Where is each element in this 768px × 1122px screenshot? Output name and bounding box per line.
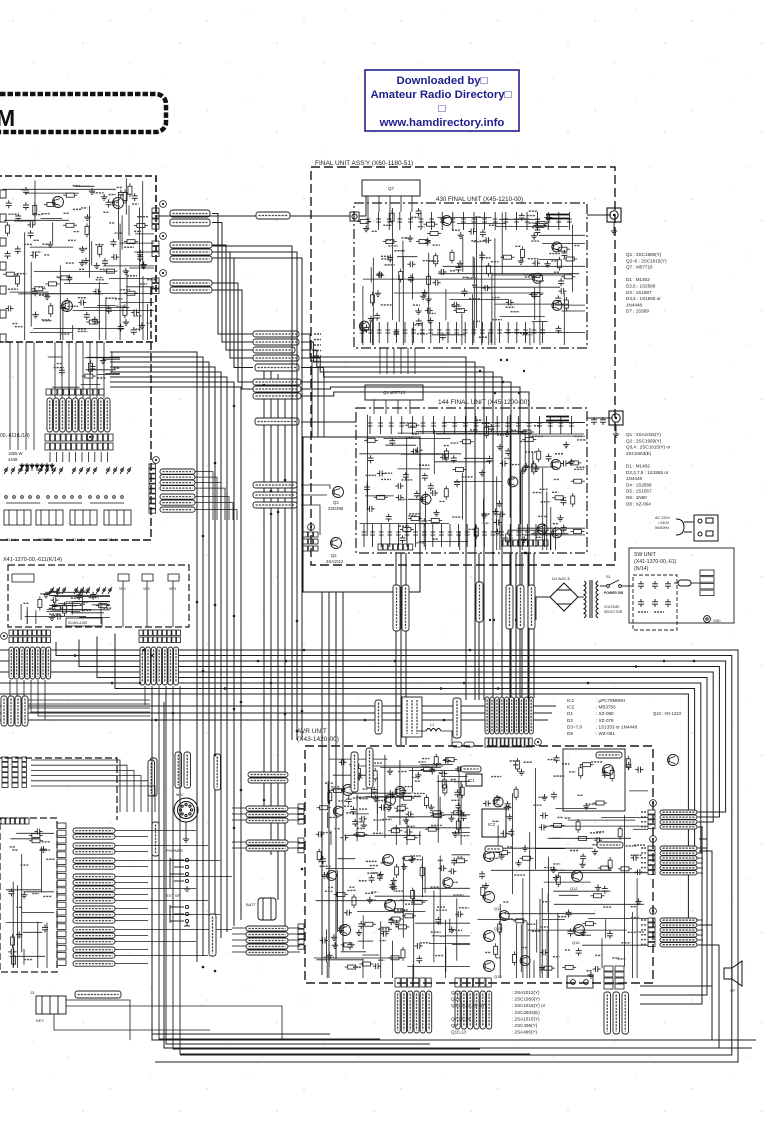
value label	[356, 821, 363, 823]
fuse F1	[452, 742, 462, 747]
wire	[363, 278, 534, 280]
ground	[376, 271, 382, 277]
svg-text:: 2SC496(Y): : 2SC496(Y)	[512, 1023, 538, 1028]
value label	[419, 761, 426, 763]
capacitor	[561, 497, 567, 505]
resistor	[506, 531, 510, 545]
signal label PLL-3B1-2L	[73, 886, 115, 891]
junction	[497, 687, 500, 690]
wire AVR edge stub	[697, 862, 703, 864]
wire	[392, 941, 394, 978]
resistor	[388, 956, 402, 960]
junction	[277, 511, 280, 514]
ground mic	[183, 836, 189, 842]
ground	[393, 920, 399, 926]
capacitor	[479, 871, 485, 879]
wire scan harness 2	[151, 686, 153, 709]
wire	[545, 825, 648, 827]
wire bridge DC out	[536, 597, 550, 620]
ground	[84, 214, 90, 220]
wire to AVR edge 2	[288, 841, 300, 843]
wire	[409, 400, 411, 414]
value label	[457, 807, 463, 809]
wire	[13, 948, 15, 966]
ground	[415, 308, 421, 314]
AVR harness lead	[490, 697, 494, 734]
capacitor C2 antenna filter	[600, 417, 606, 425]
wire	[529, 328, 531, 345]
wire TX pill to bus	[212, 258, 253, 368]
AVR harness lead	[500, 697, 504, 734]
wire	[550, 507, 552, 550]
resistor	[564, 297, 568, 311]
wire	[532, 452, 534, 471]
value label	[115, 232, 123, 234]
resistor	[123, 304, 127, 318]
value label	[353, 797, 361, 799]
capacitor	[602, 886, 608, 894]
wire	[71, 601, 110, 603]
value label	[367, 761, 374, 763]
cable lead 2	[146, 647, 151, 685]
wire	[328, 762, 330, 793]
transistor	[421, 494, 431, 504]
value label	[398, 770, 407, 772]
value label	[417, 333, 428, 335]
svg-text:POWER SW: POWER SW	[604, 591, 624, 595]
wire	[372, 258, 374, 345]
value label	[109, 222, 115, 224]
capacitor	[508, 829, 514, 837]
ground	[553, 874, 559, 880]
wire	[21, 854, 23, 952]
svg-text:Q2~6 : 2SC1815(Y): Q2~6 : 2SC1815(Y)	[626, 258, 667, 263]
ground	[457, 260, 463, 266]
wire	[326, 868, 375, 870]
wire AVR-3-CB to J15	[301, 505, 320, 535]
signal label SW-A/4(1-85)-1AT	[253, 386, 301, 392]
capacitor bias row 430	[514, 322, 519, 343]
value label	[536, 280, 545, 282]
capacitor	[540, 812, 548, 818]
signal label AVR-2-1AB	[253, 339, 299, 345]
resistor	[86, 320, 100, 324]
resistor	[317, 849, 321, 863]
value label	[88, 597, 98, 599]
value label	[53, 615, 62, 617]
svg-text:D3 : 1S1587: D3 : 1S1587	[626, 290, 652, 295]
value label	[576, 466, 585, 468]
wire AVR edge stub	[697, 919, 703, 921]
value label	[527, 923, 536, 925]
resistor	[459, 440, 473, 444]
value label	[485, 951, 491, 953]
capacitor	[439, 771, 447, 777]
signal label 2SD368-DA	[248, 772, 288, 777]
wire	[110, 366, 196, 368]
capacitor	[576, 948, 582, 956]
wire	[539, 899, 541, 978]
wire	[424, 867, 426, 893]
wire antenna 430 ground lead	[613, 222, 615, 228]
capacitor	[363, 325, 369, 333]
ground	[592, 849, 598, 855]
value label	[73, 185, 80, 187]
capacitor bias row 144	[525, 524, 530, 547]
value label	[110, 201, 118, 203]
capacitor C1 antenna filter	[591, 417, 597, 425]
value label	[124, 246, 134, 248]
capacitor	[55, 614, 63, 620]
value label	[511, 429, 517, 431]
wire	[437, 775, 439, 843]
junction	[202, 670, 205, 673]
capacitor	[356, 773, 362, 781]
value label	[452, 929, 462, 931]
value label	[359, 880, 367, 882]
svg-text:1N4448: 1N4448	[626, 302, 643, 307]
transistor Q7	[385, 900, 396, 911]
capacitor	[28, 230, 34, 238]
transistor	[552, 528, 562, 538]
ground	[518, 258, 524, 264]
ground	[368, 316, 374, 322]
capacitor bias row 144	[534, 524, 539, 547]
wire	[492, 274, 564, 276]
svg-text:: MB3756: : MB3756	[596, 705, 616, 710]
connector J bait	[12, 574, 34, 582]
net tag	[641, 924, 647, 926]
signal label IF-1-B3+42T	[73, 947, 115, 952]
wire	[398, 432, 531, 434]
signal label UF-41-GR	[73, 834, 115, 839]
value label	[440, 935, 446, 937]
wire	[47, 609, 91, 611]
capacitor bias row 144	[448, 524, 453, 547]
wire	[419, 541, 469, 543]
wire	[79, 616, 110, 618]
wire panel harness	[115, 882, 148, 884]
value label	[561, 529, 566, 531]
capacitor line filter	[652, 599, 658, 607]
capacitor bias row 144	[542, 524, 547, 547]
net tag	[641, 867, 647, 869]
wire main harness to AVR pill	[97, 637, 707, 849]
wire	[452, 943, 470, 945]
capacitor bias row 430	[523, 322, 528, 343]
junction	[214, 462, 217, 465]
capacitor	[393, 329, 399, 337]
directional coupler 144	[546, 417, 569, 421]
capacitor top row 144	[558, 416, 563, 434]
wire	[97, 373, 120, 375]
capacitor	[451, 455, 457, 463]
value label	[470, 429, 477, 431]
directional coupler 430	[546, 215, 569, 219]
svg-text:430 FINAL UNIT (X45-1210-00): 430 FINAL UNIT (X45-1210-00)	[436, 196, 523, 203]
resistor	[421, 768, 435, 772]
net tag	[641, 811, 647, 813]
wire AVR edge stub	[697, 826, 703, 828]
value label	[32, 251, 41, 253]
wire	[419, 523, 421, 550]
value label	[44, 254, 50, 256]
wire	[452, 832, 470, 834]
wire	[51, 595, 110, 597]
capacitor	[421, 518, 427, 526]
capacitor bias row 144	[456, 524, 461, 547]
wire front panel harness	[31, 781, 148, 812]
wire AVR edge stub	[697, 867, 703, 869]
value label	[540, 534, 550, 536]
value label	[56, 276, 62, 278]
capacitor	[352, 819, 358, 827]
resistor	[562, 965, 576, 969]
connector number	[650, 800, 657, 807]
value label	[452, 229, 461, 231]
capacitor	[368, 455, 374, 463]
wire bottom drop	[166, 690, 430, 1044]
ground	[321, 872, 327, 878]
capacitor line filter	[638, 599, 644, 607]
connector J32 row A	[139, 630, 181, 636]
wire	[409, 770, 470, 772]
ground	[356, 929, 362, 935]
ground	[449, 927, 455, 933]
value label	[524, 761, 532, 763]
wire interface to AVR	[342, 592, 344, 951]
wire	[420, 763, 453, 765]
value label	[507, 846, 513, 848]
value label	[381, 255, 389, 257]
resistor	[430, 811, 444, 815]
value label	[638, 611, 648, 613]
net tag	[641, 847, 647, 849]
wire	[416, 430, 528, 432]
wire	[476, 216, 478, 328]
wire	[460, 782, 462, 845]
capacitor	[429, 766, 435, 774]
value label	[557, 869, 565, 871]
value label	[381, 862, 392, 864]
transistor Q6	[383, 855, 394, 866]
scan switch contacts	[96, 587, 112, 594]
capacitor	[505, 801, 511, 809]
wire mid drop	[263, 364, 265, 810]
junction	[494, 392, 496, 394]
wire	[81, 593, 83, 612]
net tag	[641, 826, 647, 828]
wire	[375, 895, 470, 897]
value label	[577, 794, 583, 796]
wire	[139, 208, 141, 332]
capacitor	[451, 858, 457, 866]
value label	[542, 225, 549, 227]
value label	[565, 817, 571, 819]
wire mid drop	[284, 379, 286, 945]
wire	[88, 206, 90, 278]
wire key line 2	[66, 1006, 282, 1040]
capacitor	[131, 327, 137, 335]
connector number	[1, 633, 8, 640]
wire AVR edge stub	[697, 847, 703, 849]
capacitor	[433, 280, 441, 286]
value label	[412, 433, 419, 435]
value label	[574, 245, 579, 247]
transistor Q10	[484, 851, 495, 862]
wire	[129, 267, 154, 269]
wire	[558, 872, 648, 874]
ground	[361, 822, 367, 828]
resistor	[11, 934, 15, 948]
wire	[121, 215, 123, 249]
ground	[60, 304, 66, 310]
capacitor top row 144	[537, 416, 542, 434]
ground	[40, 846, 46, 852]
value label	[127, 275, 137, 277]
ground	[409, 856, 415, 862]
value label	[335, 828, 340, 830]
resistor	[474, 525, 478, 539]
wire	[358, 940, 374, 942]
wire	[561, 310, 585, 312]
signal label 1AB-F-FULL-YC	[660, 871, 697, 875]
value label	[405, 903, 415, 905]
ground	[635, 898, 641, 904]
wire	[428, 253, 430, 323]
cable label TX-PO-5B	[351, 752, 358, 792]
wire	[121, 302, 154, 304]
svg-text:50/60Hz: 50/60Hz	[655, 526, 669, 530]
fuse F2	[464, 742, 474, 747]
AVR bottom lead A	[427, 991, 432, 1033]
value label	[395, 890, 404, 892]
wire	[555, 808, 596, 810]
ground	[83, 258, 89, 264]
value label	[401, 237, 407, 239]
value label	[437, 906, 446, 908]
wire main harness to AVR pill	[0, 683, 701, 853]
value label	[596, 831, 604, 833]
value label	[451, 442, 459, 444]
connector number	[153, 457, 160, 464]
value label	[96, 279, 104, 281]
wire	[86, 369, 116, 371]
rotary switch wafer	[72, 467, 97, 474]
value label	[534, 425, 540, 427]
value label	[24, 243, 33, 245]
ground	[531, 233, 537, 239]
svg-text:IC2: IC2	[488, 822, 496, 827]
cable lead 2	[140, 647, 145, 685]
signal label SW-L/4(1-76)-FWB	[170, 287, 212, 293]
wire	[68, 452, 70, 462]
svg-text:(N/14): (N/14)	[634, 566, 649, 572]
value label	[479, 240, 487, 242]
svg-text:SP: SP	[730, 989, 736, 993]
capacitor	[377, 873, 383, 881]
signal label SW-A/4(1-76)-SCB	[160, 469, 195, 474]
capacitor	[316, 831, 324, 837]
capacitor	[454, 790, 460, 798]
capacitor	[106, 306, 112, 314]
signal label 430 FINAL-14T	[660, 918, 697, 922]
value label	[540, 488, 549, 490]
value label	[431, 824, 442, 826]
value label	[455, 308, 462, 310]
capacitor top row 430	[493, 212, 498, 230]
wire scan harness 2	[144, 686, 146, 705]
junction	[172, 712, 175, 715]
capacitor	[539, 824, 547, 830]
transistor Q5	[385, 795, 396, 806]
AVR harness lead	[529, 697, 533, 734]
value label	[372, 230, 377, 232]
capacitor	[635, 869, 643, 875]
wire	[81, 452, 83, 462]
value label	[415, 795, 422, 797]
resistor	[63, 602, 67, 616]
capacitor	[561, 460, 569, 466]
resistor	[514, 786, 518, 800]
signal label UF-52+SCR	[160, 475, 195, 480]
svg-text:Q16: Q16	[572, 940, 580, 945]
resistor	[424, 795, 428, 809]
svg-text:D2: D2	[567, 718, 573, 723]
svg-text:VR1: VR1	[119, 587, 126, 591]
transistor Q12	[572, 871, 583, 882]
capacitor top row 430	[525, 212, 530, 230]
svg-text:SCAN-4100: SCAN-4100	[68, 621, 87, 625]
capacitor top row 430	[535, 212, 540, 230]
junction	[525, 552, 527, 554]
signal label SW-A/4(1-92)-9B	[253, 379, 301, 385]
value label	[552, 491, 558, 493]
net name	[314, 350, 321, 352]
wire mic shield	[185, 822, 187, 836]
wire	[546, 492, 548, 551]
wire TX drive to 430 final	[156, 215, 350, 217]
ground	[415, 772, 421, 778]
edge connector stub	[0, 334, 6, 342]
capacitor	[408, 275, 414, 283]
net name	[314, 333, 321, 335]
wire	[539, 258, 559, 260]
signal label TX-435	[256, 212, 290, 219]
wire	[522, 878, 524, 978]
wire	[472, 256, 474, 278]
value label	[457, 856, 463, 858]
wire	[357, 910, 425, 912]
capacitor bias row 144	[387, 524, 392, 547]
value label	[452, 305, 462, 307]
ground	[351, 770, 357, 776]
wire	[107, 452, 109, 462]
wire	[82, 342, 84, 398]
capacitor	[415, 447, 423, 453]
capacitor top row 144	[399, 416, 404, 434]
svg-text:Q3,4,9,11,15~17: Q3,4,9,11,15~17	[451, 1003, 485, 1008]
value label	[78, 328, 86, 330]
diode switch matrix	[20, 463, 24, 471]
capacitor	[607, 931, 613, 939]
wire	[411, 328, 413, 345]
value label	[489, 224, 497, 226]
capacitor	[137, 250, 143, 258]
capacitor	[340, 835, 348, 841]
ground	[498, 853, 504, 859]
wire panel harness	[115, 830, 196, 832]
